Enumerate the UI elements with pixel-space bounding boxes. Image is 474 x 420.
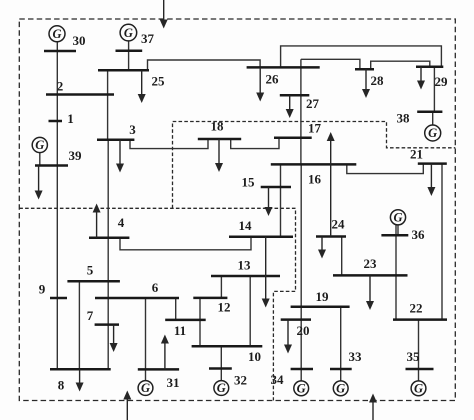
bus 10 bar [192, 345, 263, 348]
svg-text:7: 7 [87, 308, 94, 323]
load arrow bus 15 [268, 187, 270, 208]
svg-text:12: 12 [218, 300, 231, 315]
tie arrow bus 4 (up) [96, 212, 98, 238]
svg-text:31: 31 [167, 375, 180, 390]
svg-text:G: G [141, 381, 150, 395]
bus 31 bar [138, 368, 179, 371]
generator G31 circle [138, 381, 153, 396]
load arrow bus 7 [113, 325, 115, 344]
bus 9 bar [50, 297, 67, 300]
wire 26-29 top link [281, 46, 442, 68]
wire 3-18 link [130, 139, 208, 149]
bus 14 bar [229, 235, 293, 238]
generator G39 circle [32, 137, 47, 152]
wire 16-15-14 vertical [280, 164, 282, 236]
load arrow bus 18 [218, 139, 220, 164]
svg-text:13: 13 [238, 258, 252, 273]
load arrow bus 27 [289, 95, 291, 110]
tie arrow bottom-left (up) [126, 399, 128, 420]
load arrow bus 24 [321, 237, 323, 251]
load arrow bus 29 [420, 67, 422, 82]
tie arrow top into area (down) [163, 0, 165, 21]
wire 25-26 link [148, 60, 261, 70]
svg-text:1: 1 [67, 111, 74, 126]
bus 18 bar [198, 138, 241, 141]
svg-text:25: 25 [152, 74, 166, 89]
svg-text:15: 15 [242, 175, 256, 190]
zone boundary 1 (left/bottom areas) [19, 208, 295, 400]
bus 26 bar [247, 66, 320, 69]
wire 6-11 [175, 298, 177, 320]
bus 4 bar [89, 237, 129, 240]
bus 36 bar [381, 234, 408, 237]
svg-text:G: G [124, 26, 133, 40]
svg-text:26: 26 [266, 72, 280, 87]
svg-text:5: 5 [87, 263, 94, 278]
wire 26-27-17-16 vertical [300, 59, 302, 164]
bus 24 bar [316, 235, 346, 238]
svg-text:G: G [428, 126, 437, 140]
bus 7 bar [95, 323, 119, 326]
wire 12-13 [220, 276, 222, 298]
svg-text:19: 19 [316, 289, 330, 304]
svg-text:G: G [217, 381, 226, 395]
wire 6-31 and G31 stub [145, 298, 147, 381]
load arrow bus 8 [79, 369, 81, 383]
bus 38 bar [417, 111, 442, 114]
wire 12-11-10 vertical [199, 298, 201, 346]
bus 19 bar [291, 305, 350, 308]
bus 29 bar [416, 66, 443, 69]
wire 30-2-1-39-9-8 left vertical chain [56, 42, 58, 369]
svg-text:16: 16 [308, 172, 322, 187]
tie arrow bus 31 (up) [164, 343, 166, 370]
generator G32 circle [214, 381, 229, 396]
wire G37 stub and 37-25 [128, 41, 130, 70]
svg-text:2: 2 [57, 79, 64, 94]
svg-text:8: 8 [58, 378, 65, 393]
load arrow bus 21 [430, 164, 432, 188]
bus 17 bar [274, 137, 312, 140]
svg-text:14: 14 [239, 218, 253, 233]
svg-text:36: 36 [412, 227, 426, 242]
svg-text:22: 22 [410, 301, 423, 316]
svg-text:3: 3 [129, 122, 136, 137]
wire 38-G38 stub [432, 112, 434, 125]
bus 3 bar [97, 139, 134, 142]
wire 21-22 [441, 164, 443, 320]
generator G38 circle [425, 125, 441, 141]
bus 6 bar [95, 297, 179, 300]
bus 25 bar [98, 69, 149, 72]
svg-text:38: 38 [397, 111, 411, 126]
bus 32 bar [209, 367, 232, 370]
zone boundary 2 (around buses 17-18 / 38) [173, 122, 456, 209]
svg-text:18: 18 [211, 119, 225, 134]
wire 22-35 and G35 stub [418, 320, 420, 381]
load arrow bus 23 [369, 275, 371, 302]
generator G37 circle [120, 24, 137, 41]
svg-text:21: 21 [410, 147, 423, 162]
svg-text:G: G [52, 27, 61, 41]
bus 34 bar [291, 368, 313, 371]
bus 39 bar [35, 164, 68, 167]
svg-text:17: 17 [308, 121, 322, 136]
wire 13-10 [249, 276, 251, 346]
wire 24-23 [341, 237, 343, 276]
generator G36 circle [390, 210, 405, 225]
load arrow bus 20 [287, 320, 289, 346]
wire 18-17 link [231, 138, 279, 149]
bus 23 bar [333, 274, 408, 277]
wire 36-23-22 vertical [395, 225, 397, 320]
svg-text:20: 20 [297, 323, 310, 338]
bus 21 bar [418, 162, 447, 165]
svg-text:27: 27 [306, 96, 320, 111]
svg-text:G: G [297, 382, 306, 396]
wire 28-29 link [371, 61, 430, 69]
tie arrow bottom-right (up) [372, 402, 374, 420]
bus 28 bar [355, 68, 374, 71]
load arrow bus 39 [38, 166, 40, 192]
load arrow bus 28 [365, 69, 367, 90]
bus 8 bar [50, 368, 111, 371]
svg-text:G: G [414, 382, 423, 396]
svg-text:24: 24 [332, 217, 346, 232]
bus 27 bar [280, 94, 310, 97]
svg-text:33: 33 [349, 349, 363, 364]
load arrow bus 3 [119, 140, 121, 165]
svg-text:39: 39 [69, 148, 83, 163]
bus 1 bar [49, 120, 63, 123]
load arrow bus 26 [259, 67, 261, 93]
svg-text:23: 23 [364, 256, 378, 271]
load arrow bus 25 [141, 70, 143, 95]
svg-text:11: 11 [174, 323, 186, 338]
bus 5 bar [67, 280, 120, 283]
svg-text:37: 37 [141, 31, 155, 46]
wire 14-13 with load arrow bus 13 [265, 237, 267, 300]
wire 20-34 G34 stub [300, 369, 302, 381]
wire 5-8 [78, 281, 80, 369]
bus 37 bar [116, 49, 143, 52]
svg-text:G: G [35, 138, 44, 152]
wire 26-28 link [301, 59, 360, 69]
bus 22 bar [393, 318, 447, 321]
generator G30 circle [49, 26, 65, 42]
bus 2 bar [46, 93, 114, 96]
svg-text:32: 32 [234, 373, 247, 388]
svg-text:30: 30 [73, 33, 86, 48]
bus 16 bar [271, 163, 357, 166]
bus 30 bar [44, 50, 76, 53]
svg-text:29: 29 [435, 74, 449, 89]
svg-text:4: 4 [118, 215, 125, 230]
svg-text:6: 6 [152, 280, 159, 295]
wire G36 stub [397, 225, 399, 235]
bus 12 bar [193, 297, 227, 300]
svg-text:9: 9 [39, 282, 46, 297]
wire G39 stub [39, 153, 41, 166]
wire 4-14 link [120, 237, 251, 250]
svg-text:G: G [393, 211, 402, 225]
tie arrow bus 24-16 (up) [330, 140, 332, 237]
bus 20 bar [281, 318, 311, 321]
bus 13 bar [211, 275, 280, 278]
svg-text:35: 35 [407, 349, 421, 364]
generator G34 circle [294, 381, 309, 396]
svg-text:G: G [336, 382, 345, 396]
bus 15 bar [261, 186, 291, 189]
wire 19-33 and G33 stub [340, 307, 342, 381]
svg-text:34: 34 [271, 372, 285, 387]
svg-text:10: 10 [248, 349, 261, 364]
svg-text:28: 28 [371, 73, 385, 88]
bus 35 bar [406, 368, 434, 371]
generator G35 circle [411, 381, 426, 396]
wire 29-38 [433, 67, 435, 112]
wire 25-2-3 vertical [107, 70, 109, 140]
wire 16-19-20-34 vertical [300, 164, 302, 369]
wire 3-4-5-6-7-8 vertical [107, 140, 109, 369]
bus 33 bar [330, 368, 352, 371]
bus 11 bar [165, 319, 206, 322]
wire 16-21 link [347, 164, 424, 174]
generator G33 circle [333, 381, 348, 396]
wire 10-32 and G32 stub [220, 346, 222, 380]
